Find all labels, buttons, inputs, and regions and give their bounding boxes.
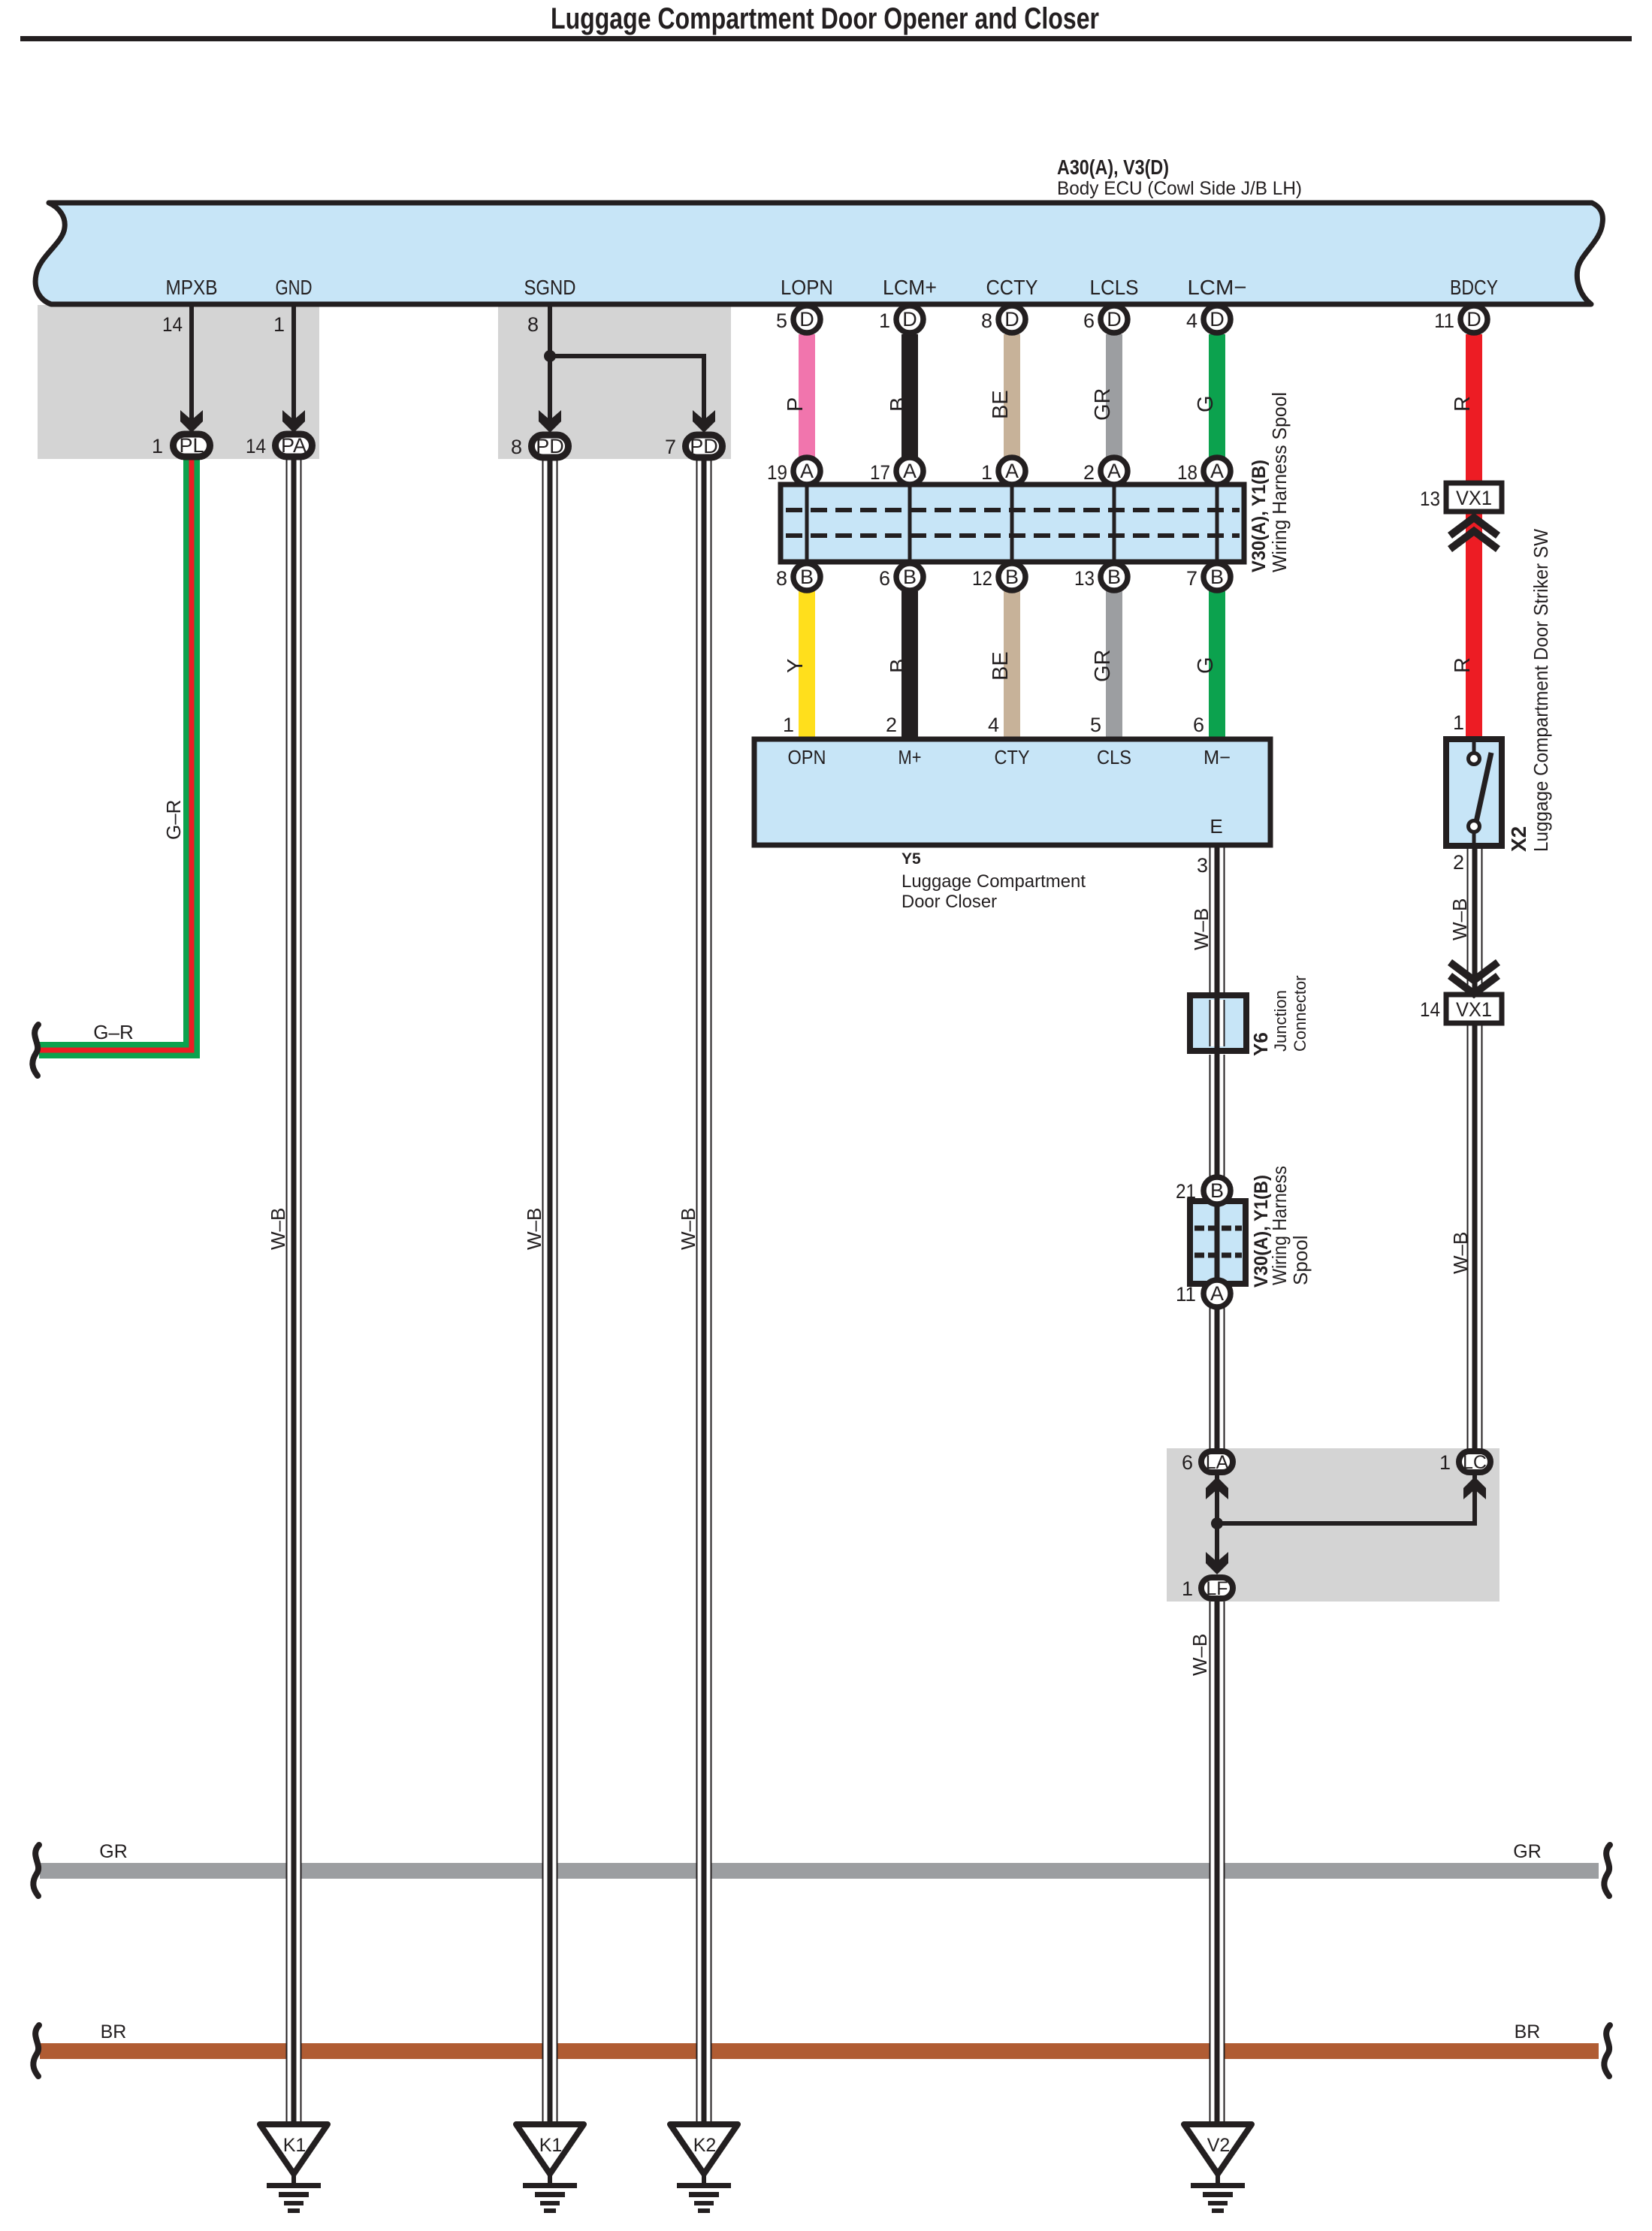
svg-text:Y5: Y5 [902,850,921,868]
svg-text:G: G [1194,657,1218,674]
svg-text:1: 1 [152,435,163,457]
svg-text:LOPN: LOPN [781,276,833,299]
svg-text:14: 14 [1420,998,1440,1021]
svg-text:R: R [1451,396,1475,412]
svg-text:1: 1 [879,309,890,332]
svg-text:K1: K1 [539,2135,563,2156]
svg-text:G–R: G–R [93,1021,133,1043]
svg-text:5: 5 [776,309,787,332]
svg-text:3: 3 [1197,854,1208,877]
svg-text:14: 14 [162,313,183,336]
svg-text:Luggage Compartment: Luggage Compartment [902,871,1086,892]
svg-text:W–B: W–B [1449,1232,1472,1274]
svg-text:13: 13 [1074,567,1095,590]
svg-text:P: P [784,397,808,412]
svg-text:M+: M+ [898,746,922,768]
svg-text:V2: V2 [1207,2135,1231,2156]
svg-text:K2: K2 [693,2135,717,2156]
svg-text:Luggage Compartment Door Strik: Luggage Compartment Door Striker SW [1530,529,1552,852]
svg-text:LA: LA [1206,1452,1229,1473]
svg-text:B: B [800,566,814,588]
svg-text:4: 4 [1186,309,1197,332]
svg-text:PA: PA [281,434,307,457]
svg-text:2: 2 [1083,461,1095,484]
svg-text:D: D [799,308,814,331]
svg-text:2: 2 [1453,851,1464,874]
svg-text:G–R: G–R [162,800,185,840]
svg-text:6: 6 [879,567,890,590]
svg-text:1: 1 [273,313,285,336]
svg-text:LC: LC [1463,1452,1487,1473]
svg-text:W–B: W–B [1190,908,1213,950]
svg-text:K1: K1 [283,2135,307,2156]
svg-text:A: A [1107,460,1121,482]
svg-text:Y: Y [784,659,808,673]
svg-text:E: E [1210,815,1222,838]
svg-text:1: 1 [1439,1451,1451,1474]
svg-text:GR: GR [1091,388,1115,421]
svg-text:V30(A), Y1(B): V30(A), Y1(B) [1249,460,1270,572]
svg-text:GND: GND [276,276,313,299]
svg-text:LF: LF [1206,1578,1228,1599]
svg-text:4: 4 [988,714,999,736]
svg-text:VX1: VX1 [1456,487,1492,509]
svg-text:B: B [886,397,911,412]
svg-text:PD: PD [690,435,718,457]
svg-text:D: D [902,308,917,331]
svg-text:6: 6 [1083,309,1095,332]
svg-text:W–B: W–B [523,1208,545,1250]
svg-text:14: 14 [246,435,266,457]
svg-text:G: G [1194,395,1218,412]
svg-text:Y6: Y6 [1249,1032,1272,1056]
svg-text:1: 1 [783,714,794,736]
svg-text:13: 13 [1420,488,1440,510]
svg-text:21: 21 [1176,1180,1196,1203]
svg-text:BR: BR [101,2021,127,2042]
svg-text:Junction: Junction [1271,990,1290,1052]
svg-text:LCM−: LCM− [1188,276,1247,299]
svg-text:1: 1 [1182,1577,1193,1600]
svg-text:BDCY: BDCY [1450,276,1498,299]
svg-text:LCM+: LCM+ [883,276,937,299]
svg-text:R: R [1451,657,1475,673]
svg-text:A: A [1005,460,1019,482]
svg-text:BR: BR [1515,2021,1541,2042]
svg-text:6: 6 [1182,1451,1193,1474]
svg-text:VX1: VX1 [1456,998,1492,1021]
svg-text:A: A [1210,460,1224,482]
svg-text:M−: M− [1204,746,1231,768]
svg-text:19: 19 [767,461,787,484]
svg-text:W–B: W–B [267,1208,289,1250]
svg-text:A: A [903,460,917,482]
svg-text:1: 1 [1453,711,1464,734]
svg-text:Door Closer: Door Closer [902,892,997,912]
svg-text:B: B [1005,566,1019,588]
svg-text:B: B [1210,1179,1224,1202]
svg-text:B: B [1210,566,1224,588]
svg-text:MPXB: MPXB [166,276,218,299]
svg-text:CTY: CTY [995,746,1030,768]
svg-text:6: 6 [1193,714,1204,736]
svg-text:A: A [800,460,814,482]
svg-text:7: 7 [1186,567,1197,590]
svg-text:CCTY: CCTY [986,276,1038,299]
svg-text:GR: GR [99,1841,128,1862]
svg-text:8: 8 [776,567,787,590]
svg-text:BE: BE [989,651,1013,681]
svg-text:7: 7 [665,436,676,458]
svg-text:LCLS: LCLS [1090,276,1139,299]
svg-text:1: 1 [981,461,992,484]
svg-text:Wiring Harness: Wiring Harness [1268,1166,1291,1285]
svg-text:8: 8 [981,309,992,332]
svg-text:D: D [1210,308,1225,331]
svg-text:PL: PL [179,434,204,457]
svg-text:OPN: OPN [788,746,826,768]
svg-text:D: D [1466,308,1481,331]
svg-text:Connector: Connector [1291,975,1309,1052]
svg-text:SGND: SGND [524,276,576,299]
svg-text:BE: BE [989,390,1013,419]
svg-text:X2: X2 [1507,826,1530,852]
svg-text:11: 11 [1176,1283,1196,1306]
svg-text:GR: GR [1513,1841,1542,1862]
svg-text:A30(A), V3(D): A30(A), V3(D) [1057,155,1169,179]
svg-text:CLS: CLS [1097,746,1131,768]
svg-text:W–B: W–B [677,1208,699,1250]
svg-text:B: B [1107,566,1121,588]
svg-text:B: B [886,659,911,673]
svg-text:18: 18 [1177,461,1197,484]
svg-text:B: B [903,566,917,588]
svg-text:12: 12 [972,567,992,590]
svg-text:A: A [1210,1282,1224,1305]
svg-text:2: 2 [886,714,897,736]
svg-text:D: D [1004,308,1019,331]
svg-text:GR: GR [1091,650,1115,683]
svg-text:8: 8 [527,313,539,336]
svg-text:Body ECU (Cowl Side J/B LH): Body ECU (Cowl Side J/B LH) [1057,178,1302,199]
svg-text:Luggage Compartment Door Opene: Luggage Compartment Door Opener and Clos… [551,2,1099,35]
svg-text:Wiring Harness Spool: Wiring Harness Spool [1268,392,1291,572]
svg-text:17: 17 [870,461,890,484]
svg-text:11: 11 [1434,309,1454,332]
svg-text:5: 5 [1090,714,1101,736]
svg-text:Spool: Spool [1289,1236,1312,1286]
svg-text:W–B: W–B [1448,898,1471,940]
svg-text:W–B: W–B [1188,1634,1211,1676]
svg-text:PD: PD [536,435,564,457]
svg-text:8: 8 [511,436,522,458]
svg-text:D: D [1107,308,1122,331]
